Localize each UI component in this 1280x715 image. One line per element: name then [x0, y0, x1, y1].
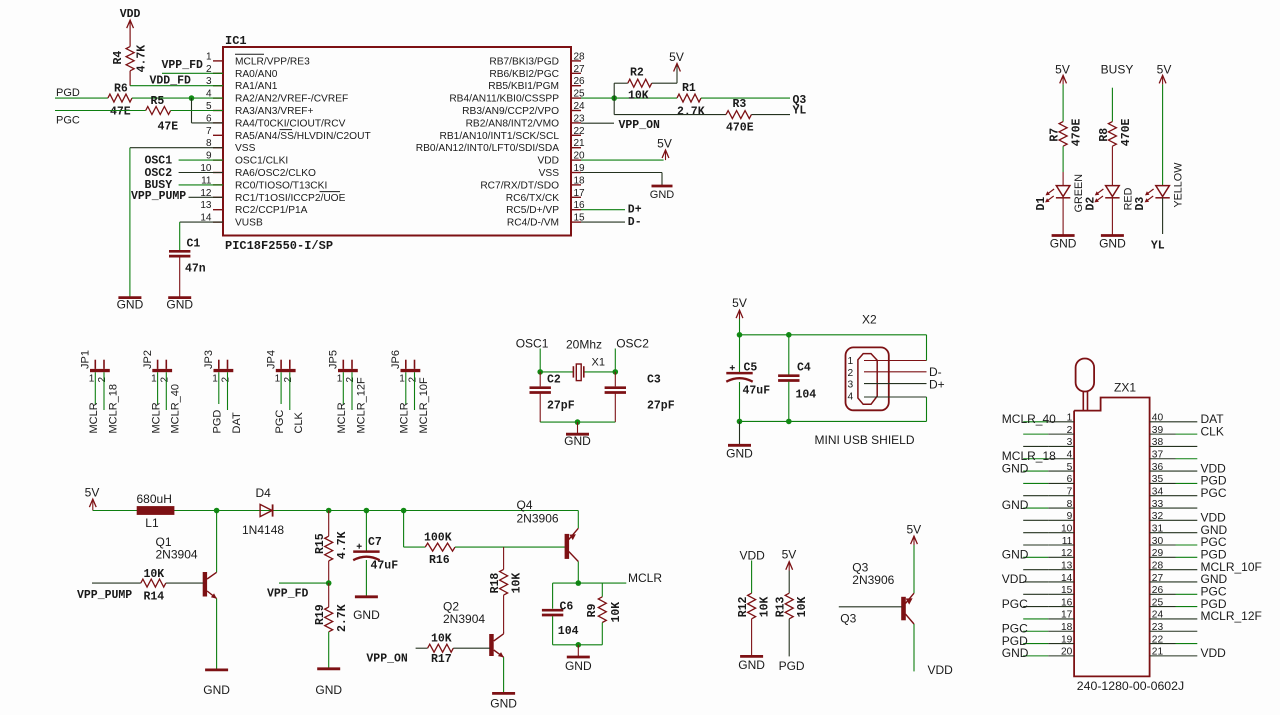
svg-text:GND: GND [166, 298, 193, 312]
svg-text:15: 15 [1061, 585, 1073, 596]
svg-text:RC0/TIOSO/T13CKI: RC0/TIOSO/T13CKI [235, 180, 327, 191]
svg-text:1: 1 [1067, 413, 1073, 424]
svg-text:MCLR: MCLR [150, 402, 162, 433]
svg-text:104: 104 [558, 625, 579, 638]
svg-text:RC6/TX/CK: RC6/TX/CK [506, 193, 559, 204]
svg-text:R16: R16 [429, 554, 450, 567]
svg-text:3: 3 [848, 380, 854, 391]
svg-text:5V: 5V [906, 523, 921, 537]
svg-text:2: 2 [283, 377, 294, 383]
svg-text:ZX1: ZX1 [1114, 381, 1136, 395]
svg-text:47n: 47n [185, 263, 206, 276]
svg-text:RA0/AN0: RA0/AN0 [235, 69, 278, 80]
svg-text:17: 17 [1061, 610, 1073, 621]
svg-text:RB1/AN10/INT1/SCK/SCL: RB1/AN10/INT1/SCK/SCL [440, 131, 560, 142]
svg-text:R2: R2 [630, 67, 644, 80]
svg-text:MCLR_40: MCLR_40 [1002, 412, 1056, 426]
svg-text:20: 20 [1061, 647, 1073, 658]
svg-text:RC2/CCP1/P1A: RC2/CCP1/P1A [235, 205, 308, 216]
svg-text:PGC: PGC [1002, 597, 1028, 611]
svg-text:18: 18 [1061, 622, 1073, 633]
svg-text:RA4/T0CKI/CIOUT/RCV: RA4/T0CKI/CIOUT/RCV [235, 118, 346, 129]
svg-text:470E: 470E [726, 122, 754, 135]
svg-text:R7: R7 [1049, 128, 1062, 142]
svg-text:27: 27 [1152, 573, 1164, 584]
svg-text:MCLR_18: MCLR_18 [107, 384, 119, 434]
svg-text:28: 28 [1152, 560, 1164, 571]
svg-text:2: 2 [221, 377, 232, 383]
svg-text:2N3906: 2N3906 [852, 573, 894, 587]
svg-text:1: 1 [275, 374, 281, 385]
svg-text:35: 35 [1152, 474, 1164, 485]
svg-text:RB5/KBI1/PGM: RB5/KBI1/PGM [488, 81, 559, 92]
svg-text:2N3906: 2N3906 [517, 512, 559, 526]
svg-text:OSC1: OSC1 [516, 337, 549, 351]
svg-text:R14: R14 [144, 591, 165, 604]
svg-text:RB7/BKI3/PGD: RB7/BKI3/PGD [489, 56, 559, 67]
svg-text:1: 1 [848, 356, 854, 367]
svg-text:VDD: VDD [928, 663, 954, 677]
svg-text:34: 34 [1152, 487, 1164, 498]
svg-text:RED: RED [1122, 187, 1134, 210]
svg-text:5V: 5V [1157, 63, 1172, 77]
svg-text:PGD: PGD [56, 87, 80, 99]
svg-text:MCLR_12F: MCLR_12F [1201, 609, 1262, 623]
svg-text:RC1/T1OSI/ICCP2/UOE: RC1/T1OSI/ICCP2/UOE [235, 193, 346, 204]
svg-text:OSC1: OSC1 [145, 155, 173, 168]
svg-text:5V: 5V [782, 548, 797, 562]
svg-text:DAT: DAT [231, 412, 243, 433]
svg-text:47uF: 47uF [371, 560, 399, 573]
svg-text:RA5/AN4/SS/HLVDIN/C2OUT: RA5/AN4/SS/HLVDIN/C2OUT [235, 131, 371, 142]
svg-text:27pF: 27pF [547, 400, 575, 413]
svg-text:1: 1 [151, 374, 157, 385]
svg-text:VDD: VDD [1002, 572, 1028, 586]
svg-text:RB3/AN9/CCP2/VPO: RB3/AN9/CCP2/VPO [462, 106, 559, 117]
svg-text:6: 6 [1067, 474, 1073, 485]
svg-text:C3: C3 [647, 374, 661, 387]
svg-text:R8: R8 [1098, 128, 1111, 142]
svg-text:D4: D4 [256, 486, 272, 500]
svg-text:10K: 10K [796, 596, 809, 617]
svg-text:C7: C7 [368, 536, 382, 549]
svg-text:PIC18F2550-I/SP: PIC18F2550-I/SP [225, 239, 333, 253]
svg-text:VPP_ON: VPP_ON [619, 119, 661, 132]
svg-text:32: 32 [1152, 511, 1164, 522]
svg-text:JP4: JP4 [265, 350, 277, 369]
svg-text:1: 1 [399, 374, 405, 385]
svg-text:R9: R9 [586, 603, 599, 617]
svg-text:22: 22 [574, 126, 586, 137]
svg-text:C6: C6 [560, 601, 574, 614]
svg-text:27pF: 27pF [647, 400, 675, 413]
svg-text:240-1280-00-0602J: 240-1280-00-0602J [1077, 679, 1184, 693]
svg-text:OSC2: OSC2 [145, 167, 173, 180]
svg-text:GND: GND [117, 298, 144, 312]
svg-text:2: 2 [97, 377, 108, 383]
svg-text:4.7K: 4.7K [336, 531, 349, 559]
svg-text:JP5: JP5 [328, 350, 340, 369]
svg-text:JP6: JP6 [390, 350, 402, 369]
svg-text:16: 16 [1061, 597, 1073, 608]
svg-text:38: 38 [1152, 437, 1164, 448]
svg-text:MCLR: MCLR [88, 402, 100, 433]
svg-text:GREEN: GREEN [1073, 174, 1085, 212]
svg-text:PGC: PGC [274, 410, 286, 434]
svg-text:GND: GND [1002, 646, 1029, 660]
svg-text:7: 7 [1067, 487, 1073, 498]
svg-text:R6: R6 [114, 83, 128, 96]
svg-text:17: 17 [574, 188, 586, 199]
svg-text:2N3904: 2N3904 [156, 548, 198, 562]
svg-text:8: 8 [1067, 499, 1073, 510]
svg-text:1: 1 [337, 374, 343, 385]
svg-text:R18: R18 [489, 573, 502, 594]
svg-text:2N3904: 2N3904 [443, 612, 485, 626]
svg-text:YELLOW: YELLOW [1173, 162, 1185, 208]
svg-text:GND: GND [1099, 237, 1126, 251]
svg-text:47E: 47E [158, 121, 179, 134]
svg-text:JP3: JP3 [203, 350, 215, 369]
svg-text:4: 4 [848, 391, 854, 402]
svg-text:25: 25 [1152, 597, 1164, 608]
svg-text:10K: 10K [431, 633, 452, 646]
svg-text:10K: 10K [628, 90, 649, 103]
svg-text:18: 18 [574, 175, 586, 186]
svg-text:13: 13 [200, 200, 212, 211]
svg-text:GND: GND [353, 608, 380, 622]
svg-text:680uH: 680uH [137, 492, 172, 506]
svg-text:GND: GND [564, 434, 591, 448]
svg-text:10K: 10K [610, 602, 623, 623]
svg-text:MCLR: MCLR [336, 402, 348, 433]
svg-text:5V: 5V [732, 296, 747, 310]
svg-text:OSC2: OSC2 [616, 337, 649, 351]
svg-text:19: 19 [1061, 634, 1073, 645]
svg-text:GND: GND [203, 683, 230, 697]
svg-text:RA1/AN1: RA1/AN1 [235, 81, 278, 92]
svg-text:GND: GND [738, 658, 765, 672]
svg-text:40: 40 [1152, 413, 1164, 424]
svg-text:2: 2 [1067, 425, 1073, 436]
svg-text:4: 4 [1067, 450, 1073, 461]
svg-text:RB6/KBI2/PGC: RB6/KBI2/PGC [489, 69, 559, 80]
svg-text:RC7/RX/DT/SDO: RC7/RX/DT/SDO [480, 180, 559, 191]
svg-text:X2: X2 [862, 313, 877, 327]
svg-text:1N4148: 1N4148 [242, 523, 284, 537]
svg-text:5V: 5V [85, 486, 100, 500]
svg-text:MCLR: MCLR [399, 402, 411, 433]
svg-text:D-: D- [628, 216, 642, 229]
svg-text:MCLR: MCLR [628, 571, 662, 585]
svg-text:1: 1 [89, 374, 95, 385]
svg-text:C1: C1 [187, 238, 201, 251]
svg-text:Q3: Q3 [840, 612, 856, 626]
svg-text:GND: GND [565, 659, 592, 673]
svg-text:GND: GND [1002, 461, 1029, 475]
svg-text:D+: D+ [929, 378, 945, 392]
svg-text:1: 1 [206, 51, 212, 62]
svg-text:IC1: IC1 [225, 34, 247, 48]
svg-text:28: 28 [574, 51, 586, 62]
svg-text:37: 37 [1152, 450, 1164, 461]
svg-text:RC4/D-/VM: RC4/D-/VM [507, 218, 559, 229]
svg-text:VPP_FD: VPP_FD [267, 588, 309, 601]
svg-text:1: 1 [212, 374, 218, 385]
svg-text:RA3/AN3/VREF+: RA3/AN3/VREF+ [235, 106, 313, 117]
svg-text:2: 2 [159, 377, 170, 383]
svg-text:CLK: CLK [293, 411, 305, 433]
svg-text:R1: R1 [682, 82, 696, 95]
svg-text:RC5/D+/VP: RC5/D+/VP [506, 205, 559, 216]
svg-text:C4: C4 [797, 362, 811, 375]
svg-text:R4: R4 [112, 51, 125, 65]
svg-text:RB4/AN11/KBI0/CSSPP: RB4/AN11/KBI0/CSSPP [449, 94, 559, 105]
svg-text:MINI USB SHIELD: MINI USB SHIELD [815, 433, 915, 447]
svg-text:GND: GND [650, 189, 675, 201]
svg-text:20Mhz: 20Mhz [566, 337, 602, 351]
svg-text:VPP_PUMP: VPP_PUMP [77, 589, 132, 602]
svg-text:RA6/OSC2/CLKO: RA6/OSC2/CLKO [235, 168, 316, 179]
svg-text:13: 13 [1061, 560, 1073, 571]
svg-text:36: 36 [1152, 462, 1164, 473]
svg-text:26: 26 [1152, 585, 1164, 596]
svg-text:10: 10 [1061, 523, 1073, 534]
svg-text:VUSB: VUSB [235, 218, 263, 229]
svg-text:YL: YL [1151, 240, 1165, 253]
svg-text:VSS: VSS [539, 168, 560, 179]
svg-text:10K: 10K [759, 596, 772, 617]
svg-text:470E: 470E [1071, 118, 1084, 146]
svg-text:7: 7 [206, 126, 212, 137]
svg-text:47E: 47E [110, 106, 131, 119]
svg-text:BUSY: BUSY [1101, 63, 1134, 77]
svg-text:D3: D3 [1134, 197, 1147, 211]
svg-text:MCLR_40: MCLR_40 [170, 384, 182, 434]
svg-text:JP1: JP1 [80, 350, 92, 369]
svg-text:24: 24 [574, 101, 586, 112]
svg-text:10K: 10K [144, 568, 165, 581]
svg-text:5V: 5V [669, 50, 684, 64]
svg-text:R13: R13 [774, 596, 787, 617]
svg-text:R5: R5 [151, 95, 165, 108]
svg-text:X1: X1 [592, 357, 605, 369]
svg-text:GND: GND [726, 447, 753, 461]
svg-text:L1: L1 [145, 516, 159, 530]
svg-text:23: 23 [1152, 622, 1164, 633]
svg-text:30: 30 [1152, 536, 1164, 547]
svg-text:OSC1/CLKI: OSC1/CLKI [235, 156, 288, 167]
svg-text:21: 21 [574, 138, 586, 149]
svg-text:VDD: VDD [1201, 646, 1227, 660]
svg-text:4.7K: 4.7K [135, 45, 148, 73]
svg-text:R19: R19 [314, 604, 327, 625]
svg-text:104: 104 [796, 389, 817, 402]
svg-text:PGC: PGC [56, 115, 80, 127]
svg-text:R15: R15 [314, 533, 327, 554]
svg-text:RB2/AN8/INT2/VMO: RB2/AN8/INT2/VMO [466, 118, 559, 129]
svg-text:MCLR_10F: MCLR_10F [418, 377, 430, 434]
svg-text:470E: 470E [1120, 118, 1133, 146]
svg-text:PGC: PGC [1201, 486, 1227, 500]
svg-text:3: 3 [1067, 437, 1073, 448]
svg-text:39: 39 [1152, 425, 1164, 436]
svg-text:22: 22 [1152, 634, 1164, 645]
svg-text:100K: 100K [424, 532, 452, 545]
svg-text:27: 27 [574, 64, 586, 75]
svg-text:12: 12 [1061, 548, 1073, 559]
svg-text:R3: R3 [733, 98, 747, 111]
svg-text:C2: C2 [547, 374, 561, 387]
svg-text:D2: D2 [1084, 197, 1097, 211]
svg-text:MCLR/VPP/RE3: MCLR/VPP/RE3 [235, 56, 310, 67]
svg-text:PGD: PGD [212, 410, 224, 434]
svg-text:R12: R12 [737, 596, 750, 617]
svg-text:VPP_FD: VPP_FD [162, 59, 204, 72]
svg-text:GND: GND [315, 683, 342, 697]
svg-text:14: 14 [1061, 573, 1073, 584]
svg-text:VDD: VDD [740, 549, 766, 563]
svg-text:JP2: JP2 [142, 350, 154, 369]
svg-text:11: 11 [1062, 536, 1073, 547]
svg-text:VSS: VSS [235, 143, 256, 154]
svg-text:5: 5 [1067, 462, 1073, 473]
svg-text:47uF: 47uF [743, 385, 771, 398]
svg-text:MCLR_12F: MCLR_12F [355, 377, 367, 434]
svg-text:RA2/AN2/VREF-/CVREF: RA2/AN2/VREF-/CVREF [235, 94, 348, 105]
svg-text:C5: C5 [744, 362, 758, 375]
svg-text:VPP_PUMP: VPP_PUMP [131, 190, 186, 203]
svg-text:YL: YL [793, 105, 807, 118]
svg-text:Q4: Q4 [517, 498, 533, 512]
svg-text:2.7K: 2.7K [336, 604, 349, 632]
svg-text:VDD_FD: VDD_FD [150, 75, 192, 88]
svg-text:2.7K: 2.7K [677, 106, 705, 119]
svg-text:26: 26 [574, 76, 586, 87]
svg-text:GND: GND [1050, 237, 1077, 251]
svg-text:9: 9 [1067, 511, 1073, 522]
svg-text:29: 29 [1152, 548, 1164, 559]
svg-text:5V: 5V [657, 137, 672, 151]
svg-text:GND: GND [490, 697, 517, 711]
svg-text:5V: 5V [1055, 63, 1070, 77]
svg-text:D+: D+ [628, 204, 642, 217]
svg-text:PGD: PGD [779, 659, 805, 673]
svg-text:21: 21 [1152, 647, 1164, 658]
svg-text:D1: D1 [1035, 197, 1048, 211]
svg-text:24: 24 [1152, 610, 1164, 621]
svg-text:VDD: VDD [537, 156, 559, 167]
svg-text:31: 31 [1152, 523, 1164, 534]
svg-text:VPP_ON: VPP_ON [366, 653, 408, 666]
svg-text:CLK: CLK [1201, 424, 1224, 438]
svg-text:GND: GND [1002, 548, 1029, 562]
svg-text:33: 33 [1152, 499, 1164, 510]
svg-text:R17: R17 [431, 653, 452, 666]
svg-text:2: 2 [848, 368, 854, 379]
svg-text:GND: GND [1002, 498, 1029, 512]
svg-text:RB0/AN12/INT0/LFT0/SDI/SDA: RB0/AN12/INT0/LFT0/SDI/SDA [416, 143, 559, 154]
svg-text:10K: 10K [510, 573, 523, 594]
